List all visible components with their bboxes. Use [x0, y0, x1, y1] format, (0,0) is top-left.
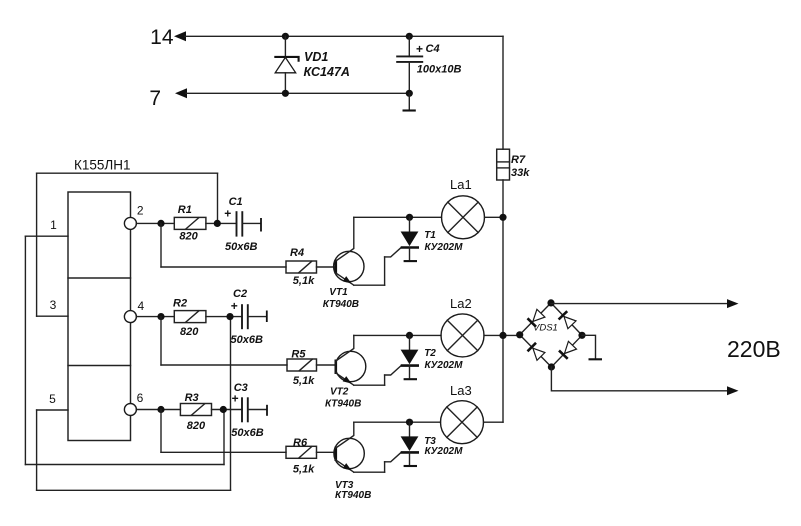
transistor VT1 base bar	[334, 260, 337, 275]
resistor R7 inner mark 1	[497, 161, 510, 163]
wire AC top to 220V	[551, 303, 727, 305]
transistor VT2 emitter	[336, 373, 354, 385]
transistor VT1 emitter	[336, 273, 354, 285]
common terminal tick C3	[266, 405, 268, 416]
svg-text:C3: C3	[234, 382, 248, 394]
svg-text:КТ940В: КТ940В	[323, 299, 359, 310]
bridge diode VDS1.3 cathode bar	[528, 343, 537, 352]
junction bridge top vertex	[547, 299, 554, 306]
svg-text:1: 1	[50, 218, 57, 232]
transistor VT2 collector	[336, 335, 354, 361]
svg-text:+: +	[416, 42, 423, 56]
bridge diode VDS1.3 triangle	[533, 348, 545, 360]
wire pin 6 output	[136, 409, 180, 411]
junction pin 2 node	[157, 220, 164, 227]
transistor VT2 emitter arrow	[343, 376, 352, 383]
wire R4 to VT1 base	[317, 266, 336, 268]
svg-text:T1: T1	[424, 230, 436, 241]
transistor VT3 body circle	[334, 438, 364, 468]
common terminal tick C1	[260, 218, 262, 232]
svg-text:КУ202М: КУ202М	[425, 446, 464, 457]
wire pin 6 down to R6	[160, 410, 162, 453]
capacitor C1 left plate	[236, 211, 238, 236]
svg-text:14: 14	[150, 26, 174, 49]
transistor VT3 collector	[336, 422, 354, 448]
svg-text:2: 2	[137, 204, 144, 218]
wire La2 to bridge	[484, 334, 520, 336]
inverter output bubble pin 6	[124, 404, 136, 416]
junction C4 bottom on 7-line	[406, 90, 413, 97]
svg-text:R3: R3	[185, 392, 199, 404]
svg-text:7: 7	[149, 87, 161, 110]
junction bridge bottom vertex	[548, 363, 555, 370]
bridge diode VDS1.2 cathode bar	[559, 311, 568, 319]
lamp La1 cross	[448, 202, 478, 232]
wire La1 to rail	[485, 216, 504, 218]
wire collector row La1	[354, 216, 442, 218]
wire R6 to VT3 base	[317, 451, 336, 453]
arrow into pin 7	[175, 88, 187, 98]
svg-text:R4: R4	[290, 247, 304, 259]
capacitor C3 left plate	[241, 397, 243, 422]
IC U1 K155LN1 body	[68, 192, 131, 441]
svg-text:КТ940В: КТ940В	[335, 490, 371, 501]
lamp La3 circle	[441, 401, 484, 444]
IC divider 1	[68, 277, 131, 279]
wire C1 to common stub	[242, 222, 260, 224]
svg-text:R5: R5	[291, 349, 306, 361]
thyristor T2 cathode bar	[401, 364, 419, 367]
junction pin 6 node	[157, 406, 164, 413]
thyristor T3 cathode bar	[401, 451, 419, 454]
svg-text:VT2: VT2	[330, 386, 349, 397]
svg-text:R6: R6	[293, 437, 308, 449]
capacitor C3 right plate	[247, 397, 249, 422]
wire AC bottom drop	[551, 367, 727, 391]
svg-text:6: 6	[137, 391, 144, 405]
wire VD1 cathode lead	[284, 36, 286, 57]
wire riser to C3 node	[223, 409, 225, 464]
wire bridge plus to ground	[582, 335, 596, 358]
capacitor C2 right plate	[247, 304, 249, 329]
resistor R4 slash	[299, 261, 312, 272]
thyristor T3 triangle	[401, 436, 419, 451]
wire right rail top segment	[502, 36, 504, 149]
wire to R5	[161, 364, 287, 366]
svg-text:50x6В: 50x6В	[225, 241, 257, 253]
wire right rail mid segment	[502, 180, 504, 422]
wire R5 to VT2 base	[317, 364, 336, 366]
wire pin 1 input	[25, 235, 68, 237]
junction thyristor T2 anode	[406, 332, 413, 339]
zener diode VD1 cathode bar with hook	[274, 57, 298, 62]
bridge diode VDS1.2 triangle	[564, 317, 576, 329]
svg-text:5,1k: 5,1k	[293, 464, 315, 476]
svg-text:100x10В: 100x10В	[417, 64, 462, 76]
wire +5V line (pin 14) to right rail	[185, 35, 503, 37]
resistor R4 body	[286, 261, 317, 273]
svg-text:R2: R2	[173, 298, 187, 310]
thyristor T1 anode lead	[409, 217, 411, 232]
junction bridge left vertex	[516, 331, 523, 338]
wire to R6	[161, 451, 286, 453]
thyristor T1 triangle	[401, 232, 419, 247]
junction rail row 2	[499, 332, 506, 339]
junction rail row 1	[499, 214, 506, 221]
svg-text:50x6В: 50x6В	[231, 334, 263, 346]
common terminal tick T1	[404, 260, 417, 262]
common terminal tick T2	[404, 378, 417, 380]
bridge diode VDS1.1 triangle	[533, 309, 545, 321]
wire collector row La2	[354, 334, 441, 336]
wire emitter run	[354, 284, 385, 286]
wire pin 5 feedback vertical	[36, 410, 38, 490]
wire gate riser T2	[384, 375, 386, 385]
svg-text:La1: La1	[450, 177, 472, 192]
svg-text:5,1k: 5,1k	[293, 275, 315, 287]
resistor R1 slash	[186, 218, 199, 229]
svg-text:820: 820	[180, 326, 199, 338]
junction pin 4 node	[157, 313, 164, 320]
svg-text:820: 820	[179, 231, 198, 243]
thyristor T1 cathode lead	[409, 248, 411, 260]
bridge VDS1 diamond	[520, 303, 582, 367]
arrow AC bottom	[727, 386, 739, 395]
junction node C2	[226, 313, 233, 320]
junction VD1 anode on 14-line	[282, 33, 289, 40]
capacitor C4 top plate	[396, 55, 423, 57]
wire pin 1 feedback vertical	[24, 236, 26, 464]
common terminal tick C2	[266, 311, 268, 323]
resistor R2 body	[174, 311, 206, 323]
svg-text:К155ЛН1: К155ЛН1	[74, 158, 131, 173]
capacitor C1 right plate	[241, 211, 243, 236]
svg-text:5,1k: 5,1k	[293, 375, 315, 387]
lamp La2 circle	[441, 314, 484, 357]
lamp La3 cross	[447, 407, 477, 437]
resistor R7 inner mark 2	[497, 167, 510, 169]
bridge diode VDS1.1 cathode bar	[528, 318, 537, 326]
junction thyristor T3 anode	[406, 419, 413, 426]
zener diode VD1 triangle	[275, 57, 296, 72]
wire gate jog T1	[385, 248, 401, 257]
wire VD1 anode lead	[284, 73, 286, 94]
ground tick at bridge	[589, 358, 603, 360]
wire collector row La3	[354, 421, 441, 423]
wire La3 to rail corner	[484, 421, 504, 423]
transistor VT1 collector	[336, 217, 354, 261]
junction node C3	[220, 406, 227, 413]
svg-text:3: 3	[50, 298, 57, 312]
ground tick below C4	[403, 109, 416, 111]
transistor VT1 emitter arrow	[343, 276, 352, 283]
bridge diode VDS1.4 cathode bar	[559, 351, 568, 359]
wire R3 to C3	[212, 409, 243, 411]
wire C4 bottom lead	[408, 62, 410, 93]
wire top feedback (C1 node to pin 3)	[37, 172, 218, 174]
svg-text:50x6В: 50x6В	[231, 427, 263, 439]
common terminal tick T3	[404, 465, 417, 467]
transistor VT3 emitter arrow	[343, 463, 352, 470]
svg-text:R7: R7	[511, 154, 526, 166]
wire riser to C1 node	[217, 173, 219, 223]
thyristor T3 cathode lead	[409, 452, 411, 464]
wire C4 top lead	[408, 36, 410, 56]
thyristor T2 anode lead	[409, 335, 411, 350]
wire gate riser T1	[384, 257, 386, 285]
resistor R5 body	[287, 359, 317, 371]
resistor R7 body	[497, 149, 510, 180]
svg-text:La3: La3	[450, 383, 472, 398]
resistor R3 slash	[191, 404, 204, 415]
svg-text:КУ202М: КУ202М	[425, 242, 464, 253]
inverter output bubble pin 4	[124, 311, 136, 323]
resistor R1 body	[174, 217, 206, 229]
wire gate jog T2	[385, 366, 401, 375]
svg-text:VD1: VD1	[304, 50, 328, 64]
junction bridge right vertex	[578, 332, 585, 339]
inverter output bubble pin 2	[124, 217, 136, 229]
transistor VT2 body circle	[335, 351, 365, 381]
svg-text:C1: C1	[229, 196, 243, 208]
capacitor C2 left plate	[241, 304, 243, 329]
thyristor T2 cathode lead	[409, 366, 411, 378]
transistor VT1 body circle	[334, 251, 364, 281]
wire common line (pin 7)	[186, 92, 409, 94]
resistor R3 body	[180, 404, 211, 416]
svg-text:220В: 220В	[727, 336, 781, 362]
transistor VT3 base bar	[334, 447, 337, 462]
wire R1 to C1	[206, 222, 237, 224]
wire emitter run	[354, 471, 385, 473]
wire to ground below C4	[408, 93, 410, 109]
wire C3 to common stub	[248, 409, 266, 411]
svg-text:33k: 33k	[511, 167, 530, 179]
wire pin 4 down to R5	[160, 317, 162, 365]
resistor R2 slash	[186, 311, 199, 322]
svg-text:T2: T2	[424, 348, 436, 359]
transistor VT2 base bar	[334, 360, 337, 375]
resistor R5 slash	[299, 359, 312, 370]
wire pin 3 feedback vertical	[36, 173, 38, 316]
svg-text:4: 4	[137, 299, 144, 313]
resistor R6 body	[286, 446, 317, 458]
junction thyristor T1 anode	[406, 214, 413, 221]
wire bottom feedback 1 (C3 node to pin 1)	[25, 464, 224, 466]
svg-text:+: +	[224, 207, 231, 221]
wire bottom feedback 2 (C2 node to pin 5)	[37, 489, 231, 491]
svg-text:C2: C2	[233, 288, 247, 300]
svg-text:КС147А: КС147А	[304, 65, 350, 79]
capacitor C4 bottom plate	[396, 61, 423, 63]
wire pin 5 input	[37, 409, 68, 411]
arrow into pin 14	[174, 31, 186, 41]
wire pin 4 output	[136, 316, 174, 318]
thyristor T1 cathode bar	[401, 246, 419, 249]
wire R2 to C2	[206, 316, 242, 318]
svg-text:La2: La2	[450, 296, 472, 311]
svg-text:КУ202М: КУ202М	[425, 360, 464, 371]
svg-text:C4: C4	[426, 43, 440, 55]
wire to R4	[161, 266, 286, 268]
wire pin 2 output	[136, 222, 174, 224]
junction VD1 anode on 7-line	[282, 90, 289, 97]
IC divider 2	[68, 365, 131, 367]
lamp La2 cross	[447, 320, 477, 350]
svg-text:R1: R1	[178, 204, 192, 216]
arrow AC top	[727, 299, 739, 308]
lamp La1 circle	[442, 196, 485, 239]
transistor VT3 emitter	[336, 460, 354, 472]
svg-text:5: 5	[49, 392, 56, 406]
bridge diode VDS1.4 triangle	[565, 341, 577, 353]
wire gate jog T3	[385, 453, 401, 462]
wire pin 2 down to R4	[160, 223, 162, 267]
junction C4 top on 14-line	[406, 33, 413, 40]
wire pin 3 input	[37, 315, 68, 317]
wire riser to C2 node	[230, 316, 232, 490]
svg-text:VDS1: VDS1	[533, 323, 558, 334]
wire emitter run	[354, 384, 385, 386]
svg-text:+: +	[231, 299, 238, 313]
wire gate riser T3	[384, 462, 386, 472]
wire C2 to common stub	[248, 316, 266, 318]
thyristor T2 triangle	[401, 350, 419, 365]
svg-text:КТ940В: КТ940В	[325, 399, 361, 410]
svg-text:820: 820	[187, 420, 206, 432]
thyristor T3 anode lead	[409, 422, 411, 437]
svg-text:VT1: VT1	[329, 287, 348, 298]
junction node C1	[214, 220, 221, 227]
resistor R6 slash	[299, 447, 312, 458]
